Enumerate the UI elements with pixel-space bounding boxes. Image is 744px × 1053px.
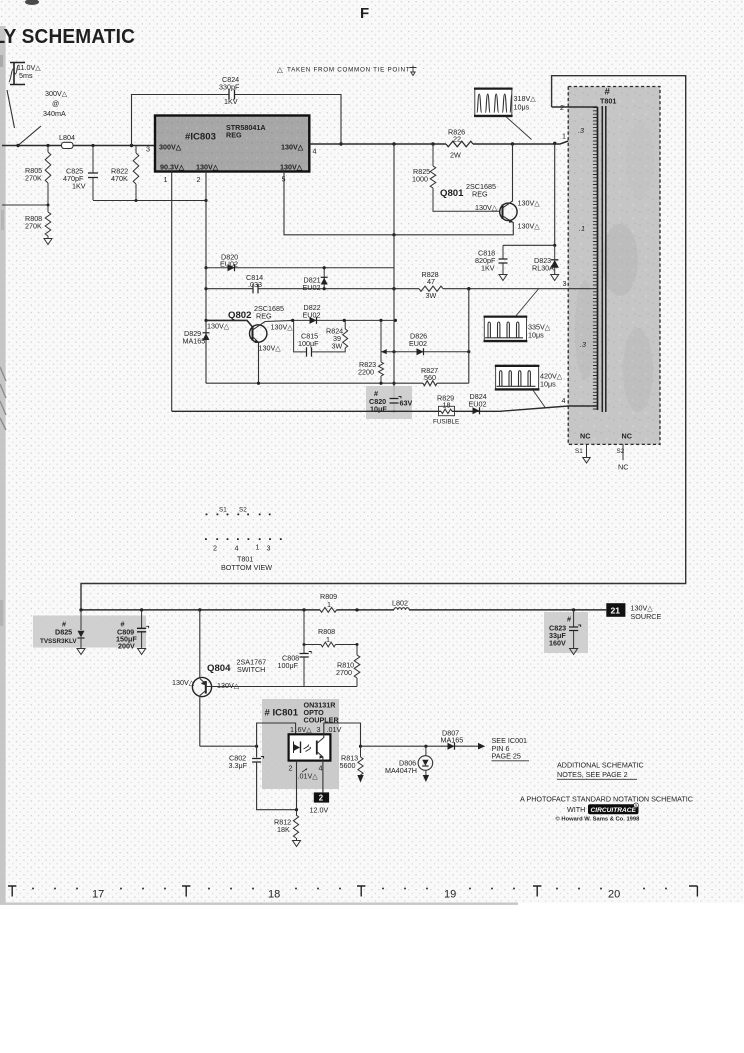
wire: IC803 pin1 down to bottom rail (171, 172, 173, 412)
svg-text:1: 1 (326, 635, 330, 644)
node junctions on pin3 row (392, 287, 470, 290)
wire: 130V output rail (IC803 pin4 to T801 pin1) (309, 141, 597, 146)
svg-text:EU02: EU02 (469, 400, 487, 409)
capacitor C809 150uF 200V (116, 610, 149, 651)
ruler numbers (92, 889, 620, 901)
svg-text:2700: 2700 (336, 668, 352, 677)
svg-text:10μs: 10μs (540, 380, 556, 389)
transformer core lines (602, 106, 606, 412)
wire: opto pin2 down to R812 node (295, 761, 298, 812)
svg-text:1KV: 1KV (72, 182, 86, 191)
svg-text:1: 1 (562, 132, 566, 141)
wire: Q802 block bottom bus (206, 382, 469, 385)
resistor R808 1 (parallel) (303, 627, 359, 647)
waveform callout 11.0V 5ms (9, 63, 41, 85)
svg-text:20: 20 (608, 889, 620, 901)
ground below D825 (77, 649, 85, 655)
T801 pin 2 stub (568, 106, 597, 108)
svg-text:130V△: 130V△ (271, 323, 294, 332)
svg-text:200V: 200V (118, 642, 135, 651)
ground below D823 (551, 275, 559, 281)
note additional schematic notes (557, 761, 644, 780)
diode D829 MA165 (183, 329, 210, 346)
label 300V @ 340mA (43, 89, 68, 118)
waveform box 318V 10us (474, 88, 536, 140)
wire: pin1 riser (left loop) (257, 723, 296, 758)
svg-text:3: 3 (317, 725, 321, 734)
svg-text:130V△: 130V△ (280, 163, 303, 172)
svg-text:ADDITIONAL SCHEMATIC: ADDITIONAL SCHEMATIC (557, 761, 644, 770)
svg-text:130V△: 130V△ (259, 344, 282, 353)
svg-text:130V△: 130V△ (518, 199, 541, 208)
top edge smudge (25, 0, 39, 5)
svg-text:3: 3 (267, 544, 271, 553)
capacitor C808 100uF (278, 610, 312, 687)
svg-text:2: 2 (213, 544, 217, 553)
svg-text:Q802: Q802 (228, 310, 251, 321)
svg-text:4: 4 (562, 396, 566, 405)
svg-text:1: 1 (164, 175, 168, 184)
shaded label area D825/C809 (33, 616, 146, 648)
svg-text:3: 3 (146, 145, 150, 154)
svg-text:5ms: 5ms (19, 71, 33, 80)
svg-text:470K: 470K (111, 174, 128, 183)
svg-text:D825: D825 (55, 628, 72, 637)
wire: IC803 pin5 to Q801 emitter (284, 172, 513, 237)
svg-text:MA165: MA165 (183, 337, 206, 346)
svg-text:10μs: 10μs (514, 103, 530, 112)
svg-text:EU02: EU02 (409, 339, 427, 348)
svg-text:.3: .3 (580, 340, 586, 349)
resistor R813 5600 (340, 746, 364, 782)
svg-text:130V△: 130V△ (172, 678, 195, 687)
wire: bottom rail to T801 pin 4 (172, 406, 598, 411)
svg-text:17: 17 (92, 889, 104, 901)
resistor R822 470K (111, 146, 139, 201)
svg-text:130V△: 130V△ (518, 222, 541, 231)
svg-text:Q804: Q804 (207, 663, 231, 674)
svg-text:130V△: 130V△ (217, 681, 240, 690)
svg-text:#: # (567, 615, 571, 624)
svg-text:1: 1 (256, 543, 260, 552)
wire: feedback loop (T801 pin2 over the top, down right side, to lower rail) (81, 76, 686, 610)
wire: vertical B (pin3 row down to R827 row) (468, 289, 470, 384)
transistor Q801 2SC1685 REG (440, 144, 540, 235)
resistor R827 560 (in bottom bus) (421, 366, 438, 386)
wire: C825/R822 bottom bus to pin2 bus (93, 199, 208, 202)
ground below C809 (138, 649, 146, 655)
wire: main input rail y=145.5 (2, 145, 155, 147)
label SEE IC001 PIN 6 PAGE 25 (492, 736, 530, 761)
svg-text:EU02: EU02 (303, 283, 321, 292)
wire: pin2 entry (552, 106, 569, 108)
svg-text:RL30A: RL30A (532, 264, 554, 273)
svg-text:130V△: 130V△ (196, 163, 219, 172)
capacitor C823 33uF 160V (shaded) (544, 610, 588, 653)
svg-text:3W: 3W (426, 291, 437, 300)
svg-text:21: 21 (611, 606, 621, 616)
svg-text:LY SCHEMATIC: LY SCHEMATIC (0, 25, 135, 48)
wire: opto pin3 riser to R813 node (324, 723, 362, 748)
svg-text:4: 4 (235, 544, 239, 553)
wire: pin3 node to SEE IC001 (361, 743, 486, 750)
svg-text:5600: 5600 (340, 761, 356, 770)
svg-text:L802: L802 (392, 599, 408, 608)
svg-text:TVSSR3KLV: TVSSR3KLV (40, 638, 77, 645)
opto coupler IC801 shaded area (262, 699, 339, 789)
svg-text:3W: 3W (332, 342, 343, 351)
svg-text:# IC801: # IC801 (265, 708, 299, 719)
opto pin labels (289, 725, 342, 781)
node main-input junctions (46, 144, 133, 147)
svg-text:NC: NC (618, 463, 628, 472)
bottom ruler marks (8, 886, 697, 897)
svg-text:1000: 1000 (412, 175, 428, 184)
ruler tick dots (32, 888, 667, 890)
transistor Q802 2SC1685 REG (206, 304, 293, 383)
opto coupler IC801 ON3131R labels (265, 701, 340, 725)
svg-text:63V: 63V (400, 399, 413, 408)
ground below C818 (499, 275, 507, 281)
note photofact standard notation (520, 795, 693, 823)
svg-text:.033: .033 (248, 280, 262, 289)
note: taken from common tie point (277, 65, 417, 76)
svg-text:F: F (360, 5, 369, 22)
svg-text:.1: .1 (579, 224, 585, 233)
wire: opto pin4 to terminal 2 (322, 761, 324, 793)
svg-text:270K: 270K (25, 174, 42, 183)
resistor R825 1000 (412, 144, 500, 211)
svg-text:S1: S1 (575, 448, 583, 455)
title LY SCHEMATIC (0, 25, 135, 48)
svg-text:.01V△: .01V△ (298, 772, 319, 781)
resistor R828 47 3W (in pin3 row) (419, 270, 443, 300)
svg-text:.01V: .01V (327, 725, 342, 734)
svg-text:130V△: 130V△ (475, 203, 498, 212)
wire: vertical A (130V rail down through C820) (392, 144, 395, 413)
terminal 2 12.0V (310, 792, 330, 814)
capacitor C825 470pF 1KV (63, 146, 98, 201)
svg-text:3.3μF: 3.3μF (229, 761, 248, 770)
svg-text:NOTES, SEE PAGE 2: NOTES, SEE PAGE 2 (557, 770, 628, 779)
ground below R812 (293, 841, 301, 847)
svg-text:270K: 270K (25, 222, 42, 231)
svg-text:4: 4 (319, 764, 323, 773)
svg-text:.3: .3 (578, 126, 584, 135)
svg-text:MA4047H: MA4047H (385, 766, 417, 775)
capacitor C802 3.3uF (229, 754, 298, 810)
svg-text:160V: 160V (549, 639, 566, 648)
svg-text:18K: 18K (277, 825, 290, 834)
svg-text:47: 47 (427, 277, 435, 286)
svg-text:BOTTOM VIEW: BOTTOM VIEW (221, 563, 272, 572)
resistor R826 22 2W (in line) (446, 128, 473, 160)
wire: lower 130V rail (79, 608, 606, 611)
svg-text:T801: T801 (600, 97, 616, 106)
left scan edge strip (0, 26, 6, 903)
transistor Q804 2SA1767 SWITCH (172, 610, 266, 746)
T801 NC terminals S1 S2 (575, 432, 632, 472)
capacitor C824 330pF 1KV (over IC803) (132, 75, 343, 146)
waveform box 335V 10us (484, 289, 551, 342)
svg-text:18: 18 (443, 401, 451, 410)
ground below C823 (570, 649, 578, 655)
svg-text:SOURCE: SOURCE (631, 612, 662, 621)
svg-text:@: @ (52, 99, 59, 108)
svg-text:MA165: MA165 (441, 736, 464, 745)
svg-text:S2: S2 (239, 507, 247, 514)
svg-text:SWITCH: SWITCH (237, 665, 265, 674)
resistor R812 18K (274, 810, 299, 841)
resistor R824 39 3W (326, 320, 348, 350)
svg-text:REG: REG (256, 311, 272, 320)
diode D806 MA4047H (circled) (385, 746, 433, 782)
ground below R808 (44, 239, 52, 245)
transformer winding (coil with ticks) (593, 107, 598, 410)
svg-text:130V△: 130V△ (207, 322, 230, 331)
svg-text:WITH: WITH (567, 805, 585, 814)
svg-text:#IC803: #IC803 (185, 132, 216, 143)
svg-text:REG: REG (226, 131, 242, 140)
wire: IC803 pin2 bus down left side (204, 172, 207, 384)
svg-text:100μF: 100μF (278, 661, 299, 670)
svg-text:S1: S1 (219, 507, 227, 514)
svg-text:REG: REG (472, 190, 488, 199)
resistor R808 270K (25, 205, 51, 239)
resistor R810 2700 (336, 645, 360, 687)
T801 bottom view diagram (205, 507, 282, 573)
diode D824 EU02 (in rail) (469, 392, 487, 414)
inductor L802 (392, 599, 409, 610)
interlock switch (cut off at page edge) (7, 90, 41, 147)
svg-text:560: 560 (424, 373, 436, 382)
terminal 21 130V SOURCE (606, 603, 661, 621)
svg-text:340mA: 340mA (43, 109, 66, 118)
svg-text:19: 19 (444, 889, 456, 901)
svg-text:3: 3 (563, 279, 567, 288)
svg-text:10μs: 10μs (528, 331, 544, 340)
transformer T801 outline (shaded dashed box) (568, 87, 660, 445)
svg-text:.6V△: .6V△ (296, 725, 313, 734)
resistor R823 2200 (358, 320, 384, 383)
svg-text:90.3V△: 90.3V△ (160, 163, 185, 172)
diode D822 EU02 (291, 303, 397, 324)
svg-text:Q801: Q801 (440, 188, 464, 199)
capacitor C814 .033 (series in pin3 row) (206, 273, 598, 293)
svg-text:18: 18 (268, 889, 280, 901)
capacitor C815 100uF (series loop with R824) (294, 320, 346, 356)
svg-text:△: △ (277, 65, 283, 74)
svg-text:© Howard W. Sams & Co. 1998: © Howard W. Sams & Co. 1998 (556, 816, 641, 823)
svg-text:1: 1 (327, 600, 331, 609)
capacitor C818 820pF 1KV (475, 245, 508, 274)
svg-text:PAGE 25: PAGE 25 (492, 752, 521, 761)
svg-text:CIRCUITRACE: CIRCUITRACE (591, 807, 637, 814)
diode D826 EU02 (381, 332, 470, 356)
svg-text:300V△: 300V△ (159, 143, 182, 152)
wire: Q804 collector to IC801 pin1 node (200, 745, 258, 748)
svg-text:R: R (635, 804, 638, 808)
diode D825 TVSSR3KLV (40, 610, 85, 649)
svg-text:100μF: 100μF (298, 339, 319, 348)
svg-text:TAKEN FROM COMMON TIE POINT: TAKEN FROM COMMON TIE POINT (287, 67, 410, 74)
snubber feed wire from 130V rail (503, 143, 555, 245)
inductor L804 (59, 133, 75, 149)
svg-text:A PHOTOFACT STANDARD NOTATION: A PHOTOFACT STANDARD NOTATION SCHEMATIC (520, 795, 693, 804)
svg-text:2: 2 (197, 175, 201, 184)
svg-text:1KV: 1KV (481, 264, 495, 273)
svg-text:NC: NC (580, 432, 590, 441)
wire: Q804 base to R810 node (212, 686, 357, 688)
svg-text:1KV: 1KV (224, 97, 238, 106)
resistor R829 18 (fusible, boxed) (433, 394, 459, 426)
svg-text:10μF: 10μF (370, 405, 387, 414)
svg-text:4: 4 (313, 147, 317, 156)
wire: startup lower rail y=205 (2, 204, 48, 206)
diode D821 EU02 (303, 266, 328, 292)
opto body IC801 (289, 734, 331, 760)
svg-text:2W: 2W (450, 151, 461, 160)
op-amp/regulator IC803 STR58041A (155, 116, 309, 172)
svg-text:130V△: 130V△ (281, 143, 304, 152)
svg-text:12.0V: 12.0V (310, 806, 329, 815)
svg-text:300V△: 300V△ (45, 89, 68, 98)
svg-text:1: 1 (290, 725, 294, 734)
svg-text:S2: S2 (617, 448, 625, 455)
waveform box 420V 10us (495, 365, 563, 408)
resistor R809 1 (in rail) (320, 592, 337, 612)
capacitor C820 10uF =63V (shaded) (366, 386, 412, 419)
svg-text:NC: NC (622, 432, 632, 441)
svg-text:2200: 2200 (358, 368, 374, 377)
svg-text:2: 2 (289, 764, 293, 773)
diode D807 MA165 (441, 729, 464, 750)
svg-text:FUSIBLE: FUSIBLE (433, 419, 459, 426)
diode D823 RL30A (532, 245, 558, 274)
svg-text:L804: L804 (59, 133, 75, 142)
diode D820 EU02 (206, 253, 394, 272)
svg-text:2: 2 (319, 794, 324, 803)
resistor R805 270K (25, 146, 51, 206)
